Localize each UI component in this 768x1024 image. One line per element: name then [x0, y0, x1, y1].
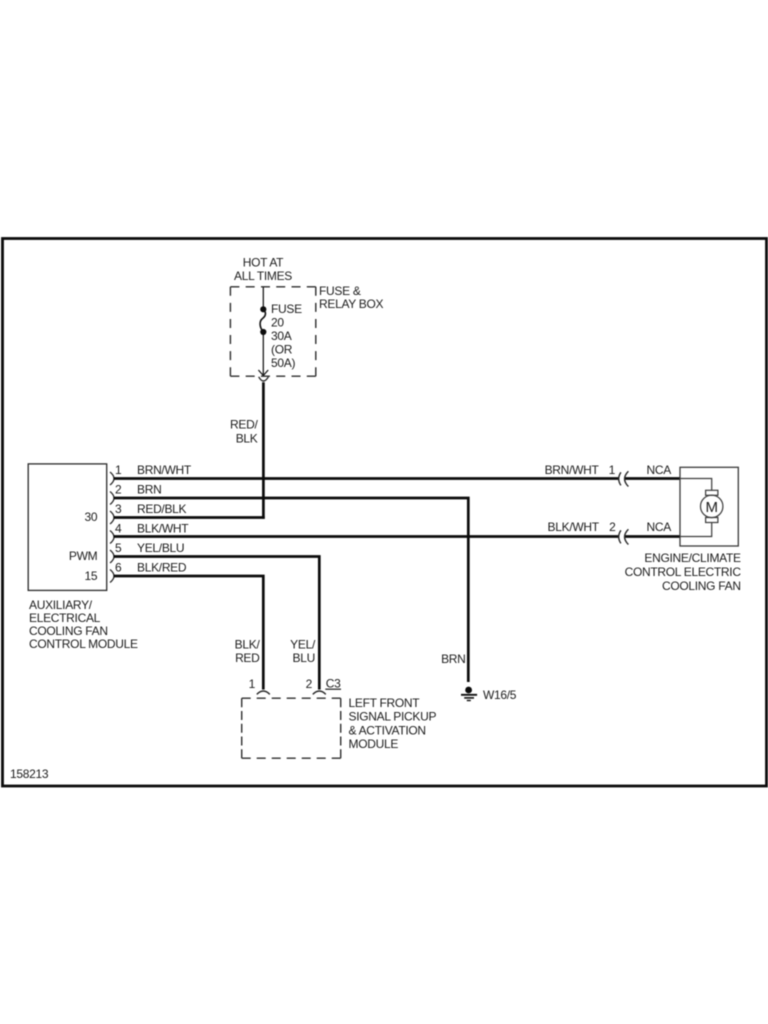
svg-text:50A): 50A): [271, 356, 295, 370]
svg-text:HOT AT: HOT AT: [243, 256, 284, 270]
svg-text:4: 4: [115, 522, 122, 536]
svg-text:3: 3: [115, 502, 122, 516]
svg-text:RED/: RED/: [230, 418, 258, 432]
svg-text:CONTROL MODULE: CONTROL MODULE: [29, 637, 138, 651]
svg-text:1: 1: [115, 463, 122, 477]
svg-text:NCA: NCA: [647, 520, 672, 534]
svg-text:1: 1: [249, 677, 256, 691]
svg-text:RED/BLK: RED/BLK: [137, 502, 187, 516]
svg-text:ELECTRICAL: ELECTRICAL: [29, 611, 101, 625]
svg-text:FUSE: FUSE: [271, 302, 302, 316]
svg-text:YEL/: YEL/: [290, 638, 316, 652]
svg-text:YEL/BLU: YEL/BLU: [137, 541, 184, 555]
svg-text:BRN/WHT: BRN/WHT: [545, 463, 600, 477]
svg-text:CONTROL ELECTRIC: CONTROL ELECTRIC: [625, 565, 742, 579]
svg-text:30: 30: [85, 510, 98, 524]
svg-text:15: 15: [85, 569, 98, 583]
svg-text:M: M: [705, 499, 718, 516]
svg-text:2: 2: [609, 520, 616, 534]
svg-text:ALL TIMES: ALL TIMES: [234, 269, 292, 283]
svg-text:BRN/WHT: BRN/WHT: [137, 463, 192, 477]
svg-text:& ACTIVATION: & ACTIVATION: [349, 724, 426, 738]
svg-text:NCA: NCA: [647, 463, 672, 477]
svg-text:BLK/WHT: BLK/WHT: [548, 520, 600, 534]
svg-text:SIGNAL PICKUP: SIGNAL PICKUP: [349, 710, 437, 724]
svg-text:COOLING FAN: COOLING FAN: [29, 624, 108, 638]
svg-text:30A: 30A: [271, 329, 292, 343]
svg-text:20: 20: [271, 316, 284, 330]
svg-text:BLU: BLU: [293, 651, 315, 665]
svg-text:BLK/: BLK/: [235, 638, 261, 652]
svg-text:C3: C3: [326, 676, 341, 690]
svg-text:5: 5: [115, 541, 122, 555]
svg-text:BLK/WHT: BLK/WHT: [137, 522, 189, 536]
svg-text:MODULE: MODULE: [349, 737, 399, 751]
svg-text:ENGINE/CLIMATE: ENGINE/CLIMATE: [644, 551, 741, 565]
svg-text:FUSE &: FUSE &: [319, 284, 361, 298]
svg-text:(OR: (OR: [271, 343, 293, 357]
svg-text:LEFT FRONT: LEFT FRONT: [349, 696, 421, 710]
svg-text:COOLING FAN: COOLING FAN: [662, 579, 741, 593]
svg-text:BLK: BLK: [236, 432, 258, 446]
svg-text:AUXILIARY/: AUXILIARY/: [29, 598, 93, 612]
svg-text:6: 6: [115, 561, 122, 575]
svg-text:BLK/RED: BLK/RED: [137, 561, 187, 575]
svg-text:2: 2: [306, 677, 313, 691]
svg-text:W16/5: W16/5: [483, 688, 517, 702]
svg-text:2: 2: [115, 483, 122, 497]
svg-text:RELAY BOX: RELAY BOX: [319, 297, 384, 311]
svg-text:RED: RED: [235, 651, 260, 665]
svg-text:BRN: BRN: [441, 652, 465, 666]
svg-text:158213: 158213: [10, 767, 49, 781]
svg-text:PWM: PWM: [69, 549, 98, 563]
svg-text:1: 1: [609, 463, 616, 477]
svg-text:BRN: BRN: [137, 483, 161, 497]
